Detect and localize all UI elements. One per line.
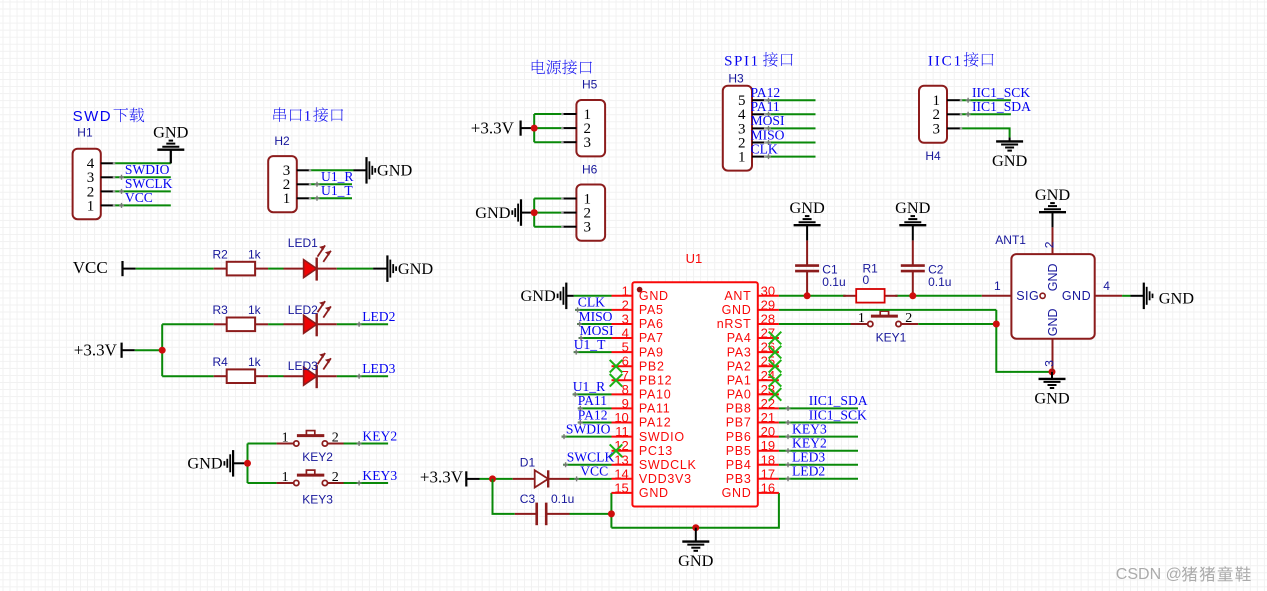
wire VCC to R2	[136, 268, 214, 270]
svg-text:0: 0	[863, 273, 870, 287]
no-connect marks right	[769, 332, 782, 401]
ground GND at keys	[187, 450, 247, 477]
wire PA12 at H3	[765, 99, 815, 101]
svg-text:11: 11	[615, 424, 629, 439]
net label VCC at U1	[574, 464, 608, 482]
ground GND at LED1	[373, 255, 433, 282]
KEY1 pin 2	[905, 311, 912, 326]
net label IIC1_SCK at U1	[786, 407, 868, 425]
svg-text:GND: GND	[1046, 263, 1060, 291]
svg-text:25: 25	[761, 354, 775, 369]
net label IIC1_SCK at H4	[966, 85, 1031, 103]
IC U1	[612, 282, 779, 506]
svg-text:19: 19	[761, 438, 775, 453]
net label LED2 at U1	[786, 464, 826, 482]
svg-text:1k: 1k	[248, 355, 262, 369]
title IIC1 port	[928, 52, 994, 69]
svg-text:nRST: nRST	[717, 317, 752, 331]
svg-text:20: 20	[761, 424, 775, 439]
net label MOSI at H3	[751, 113, 785, 131]
wire key branch	[248, 444, 277, 484]
svg-text:SWCLK: SWCLK	[125, 176, 173, 191]
LED LED3	[284, 353, 337, 388]
svg-text:SWDIO: SWDIO	[125, 162, 170, 177]
wire LED1 to GND	[337, 268, 373, 270]
wire to R3	[162, 323, 214, 325]
ANT1 pin 3 number	[1043, 360, 1057, 367]
title UART1 port	[273, 107, 343, 124]
svg-text:R4: R4	[213, 355, 229, 369]
wire PA12 at U1	[578, 422, 612, 424]
ground GND right of ANT1	[1131, 283, 1195, 310]
ANT1 pin GND bottom name	[1046, 308, 1060, 336]
svg-text:4: 4	[622, 326, 629, 341]
wire H2 pin3 to GND	[310, 169, 354, 171]
wire U1_R	[310, 183, 352, 185]
svg-text:14: 14	[614, 466, 628, 481]
label R4 value 1k	[248, 355, 262, 369]
net label U1_T	[315, 183, 354, 201]
wire SWCLK at U1	[563, 464, 611, 466]
ground GND at H2	[354, 157, 413, 184]
svg-text:KEY1: KEY1	[876, 331, 907, 345]
svg-text:GND: GND	[153, 123, 189, 142]
net label LED3	[357, 361, 396, 379]
svg-text:IIC1_SCK: IIC1_SCK	[972, 85, 1030, 100]
svg-text:0.1u: 0.1u	[822, 275, 845, 289]
svg-text:GND: GND	[475, 203, 511, 222]
power port +3.3V at H5	[471, 118, 534, 137]
svg-text:GND: GND	[639, 486, 669, 500]
svg-text:PB3: PB3	[726, 472, 752, 486]
svg-text:U1: U1	[686, 251, 703, 266]
pin end markers	[113, 99, 963, 228]
svg-text:MOSI: MOSI	[751, 113, 785, 128]
KEY1 pin 1	[858, 311, 865, 326]
wire KEY3 at U1	[779, 436, 858, 438]
svg-text:1: 1	[87, 198, 95, 214]
label R1	[863, 262, 879, 276]
svg-text:KEY2: KEY2	[792, 436, 827, 451]
svg-text:KEY3: KEY3	[302, 492, 333, 506]
antenna ANT1	[982, 227, 1122, 372]
svg-text:9: 9	[622, 396, 629, 411]
label C2	[928, 263, 944, 277]
label R3 value 1k	[248, 303, 262, 317]
wire CLK at U1	[575, 309, 611, 311]
label KEY1	[876, 331, 907, 345]
wire VCC at H1	[114, 204, 171, 206]
ANT1 pin 4 number	[1103, 279, 1110, 293]
svg-text:D1: D1	[520, 456, 536, 470]
KEY3 pin 1	[282, 470, 289, 485]
wire MISO at H3	[765, 142, 815, 144]
connector H5 designator	[582, 78, 598, 92]
wire D1 to U1 pin14	[570, 478, 612, 480]
connector H2 designator	[274, 134, 290, 148]
svg-text:PA11: PA11	[639, 402, 671, 416]
LED LED2	[284, 301, 337, 336]
svg-text:7: 7	[622, 368, 629, 383]
capacitor C3	[515, 503, 570, 526]
svg-text:PB8: PB8	[726, 402, 752, 416]
svg-text:KEY2: KEY2	[302, 450, 333, 464]
ANT1 pin GND right name	[1062, 289, 1091, 303]
svg-text:GND: GND	[789, 198, 825, 217]
svg-text:H2: H2	[274, 134, 290, 148]
svg-text:17: 17	[761, 466, 775, 481]
wire R4 to LED3	[268, 375, 283, 377]
svg-text:PB2: PB2	[639, 359, 665, 373]
svg-text:H1: H1	[77, 126, 93, 140]
wire MOSI at H3	[765, 127, 815, 129]
ground GND at bottom	[678, 528, 714, 570]
net label VCC at H1	[119, 190, 153, 208]
svg-text:SWDIO: SWDIO	[566, 421, 611, 436]
ANT1 pin 1 number	[994, 279, 1001, 293]
title SWD download	[73, 108, 145, 125]
wire ANT	[779, 295, 982, 297]
svg-text:1k: 1k	[248, 303, 262, 317]
wire bottom rail	[611, 493, 779, 528]
push button KEY3	[277, 470, 345, 486]
svg-text:3: 3	[584, 135, 592, 151]
wire KEY2 at U1	[779, 450, 858, 452]
KEY2 pin 2	[332, 431, 339, 446]
wire PA11 at U1	[578, 407, 612, 409]
connector H1	[73, 149, 114, 220]
svg-text:26: 26	[761, 340, 775, 355]
svg-text:LED1: LED1	[288, 236, 318, 250]
svg-text:H6: H6	[582, 163, 598, 177]
svg-text:10: 10	[614, 410, 628, 425]
svg-text:PA9: PA9	[639, 345, 664, 359]
wire LED2 at U1	[779, 478, 858, 480]
svg-text:PA5: PA5	[639, 303, 664, 317]
svg-text:IIC1_SDA: IIC1_SDA	[809, 393, 868, 408]
svg-text:PB6: PB6	[726, 430, 752, 444]
push button KEY2	[277, 431, 345, 447]
wire KEY2 stub	[344, 443, 389, 445]
svg-text:GND: GND	[521, 286, 557, 305]
net label PA12 at U1	[578, 407, 608, 425]
svg-text:+3.3V: +3.3V	[420, 468, 464, 487]
svg-text:GND: GND	[1034, 388, 1070, 407]
svg-text:R3: R3	[213, 303, 229, 317]
svg-text:R2: R2	[213, 247, 229, 261]
svg-text:LED2: LED2	[362, 309, 395, 324]
net label CLK at H3	[751, 141, 778, 159]
ground GND at C2	[895, 198, 931, 240]
ANT1 pin 2 number	[1043, 241, 1057, 248]
push button KEY1	[851, 311, 919, 327]
svg-text:GND: GND	[1046, 308, 1060, 336]
svg-text:PA2: PA2	[727, 359, 752, 373]
svg-text:1: 1	[304, 109, 312, 125]
svg-text:KEY3: KEY3	[792, 421, 827, 436]
svg-text:GND: GND	[722, 486, 752, 500]
svg-text:VCC: VCC	[580, 464, 608, 479]
junction at C2	[909, 292, 916, 299]
svg-text:3: 3	[622, 312, 629, 327]
svg-text:SWDCLK: SWDCLK	[639, 458, 697, 472]
svg-text:SWCLK: SWCLK	[567, 450, 615, 465]
junction at D1	[489, 475, 496, 482]
connector H6	[562, 185, 605, 241]
wire SWCLK	[114, 190, 171, 192]
svg-text:MISO: MISO	[579, 309, 613, 324]
svg-text:1: 1	[622, 283, 629, 298]
junction at keys	[244, 460, 251, 467]
power port +3.3V at LED rows	[74, 340, 135, 359]
wire MISO at U1	[577, 323, 611, 325]
net label SWDIO	[119, 162, 170, 180]
svg-text:U1_R: U1_R	[573, 379, 606, 394]
wire PA11 at H3	[765, 113, 815, 115]
svg-text:GND: GND	[1062, 289, 1091, 303]
svg-text:3: 3	[584, 220, 592, 236]
svg-text:3: 3	[1043, 360, 1057, 367]
junction at H6	[531, 209, 538, 216]
svg-text:28: 28	[761, 312, 775, 327]
svg-text:C3: C3	[520, 492, 536, 506]
svg-text:PA1: PA1	[727, 374, 752, 388]
net label SWCLK	[119, 176, 173, 194]
svg-text:PB12: PB12	[639, 374, 672, 388]
resistor R2	[214, 262, 268, 276]
label C3	[520, 492, 536, 506]
wire IIC1_SDA at H4	[961, 113, 1011, 115]
svg-text:KEY2: KEY2	[362, 428, 397, 443]
junction at C1	[804, 292, 811, 299]
net label KEY2 at U1	[786, 436, 827, 454]
label R4	[213, 355, 229, 369]
wire CLK at H3	[765, 156, 815, 158]
wire KEY1 to GND net	[918, 323, 996, 325]
svg-text:PA6: PA6	[639, 317, 664, 331]
svg-text:4: 4	[1103, 279, 1110, 293]
net label SWDIO at U1	[562, 421, 611, 439]
svg-text:23: 23	[761, 382, 775, 397]
label R1 value 0	[863, 273, 870, 287]
net label PA11 at H3	[751, 99, 780, 117]
svg-text:VCC: VCC	[73, 258, 108, 277]
net label MOSI at U1	[579, 323, 614, 341]
net label IIC1_SDA at H4	[966, 99, 1031, 117]
net label PA12 at H3	[751, 85, 781, 103]
svg-text:VDD3V3: VDD3V3	[639, 472, 692, 486]
label R2	[213, 247, 229, 261]
wire U1 pin1 GND	[574, 295, 612, 297]
svg-text:U1_T: U1_T	[321, 183, 353, 198]
svg-text:30: 30	[761, 283, 775, 298]
svg-text:GND: GND	[895, 198, 931, 217]
svg-text:6: 6	[622, 354, 629, 369]
svg-text:U1_T: U1_T	[574, 337, 606, 352]
wire LED2 stub	[337, 323, 388, 325]
svg-text:1: 1	[738, 150, 746, 166]
capacitor C1	[795, 240, 819, 295]
net label MISO at H3	[751, 127, 785, 145]
svg-text:SIG: SIG	[1016, 289, 1039, 303]
title SPI1 port	[724, 52, 793, 69]
svg-text:8: 8	[622, 382, 629, 397]
svg-text:CLK: CLK	[751, 141, 778, 156]
net label PA11 at U1	[578, 393, 607, 411]
junction at C3	[608, 510, 615, 517]
svg-text:GND: GND	[639, 289, 669, 303]
svg-text:GND: GND	[678, 551, 714, 570]
svg-text:GND: GND	[1035, 185, 1071, 204]
svg-text:2: 2	[1043, 241, 1057, 248]
connector H5	[562, 100, 605, 156]
wire +3.3V to D1	[480, 478, 513, 480]
net label MISO at U1	[577, 309, 613, 327]
wire IIC1_SDA at U1	[779, 407, 858, 409]
connector H4	[919, 86, 961, 143]
svg-text:PA12: PA12	[751, 85, 781, 100]
IC U1 designator	[686, 251, 703, 266]
label KEY2	[302, 450, 333, 464]
label R3	[213, 303, 229, 317]
svg-text:LED3: LED3	[362, 361, 395, 376]
wire U1 pin29 GND	[779, 310, 1052, 372]
ANT1 pin SIG name	[1016, 289, 1039, 303]
wire GND to H6	[534, 199, 562, 227]
ground GND at H6	[475, 199, 534, 226]
svg-text:GND: GND	[992, 151, 1028, 170]
junction at +3.3V	[159, 347, 166, 354]
svg-text:GND: GND	[722, 303, 752, 317]
wire nRST to KEY1	[779, 323, 856, 325]
net label KEY2	[357, 428, 398, 446]
net label IIC1_SDA at U1	[786, 393, 868, 411]
junction at H5	[531, 125, 538, 132]
title power port	[532, 60, 592, 75]
svg-text:3: 3	[933, 121, 941, 137]
svg-text:SWD: SWD	[73, 108, 113, 125]
svg-text:16: 16	[761, 480, 775, 495]
net label U1_R	[315, 169, 355, 187]
power port +3.3V at D1	[420, 468, 480, 487]
svg-text:13: 13	[614, 452, 628, 467]
svg-text:2: 2	[332, 470, 339, 485]
svg-text:PA12: PA12	[578, 407, 608, 422]
svg-text:+3.3V: +3.3V	[471, 118, 515, 137]
svg-text:1: 1	[282, 470, 289, 485]
svg-text:GND: GND	[398, 259, 434, 278]
svg-text:PC13: PC13	[639, 444, 673, 458]
connector H6 designator	[582, 163, 598, 177]
svg-text:LED3: LED3	[288, 359, 318, 373]
resistor R1	[843, 289, 897, 303]
wire U1_T	[310, 197, 352, 199]
svg-text:GND: GND	[1159, 289, 1195, 308]
wire R2 to LED1	[268, 268, 283, 270]
svg-text:PA0: PA0	[727, 388, 752, 402]
label C1	[822, 263, 838, 277]
svg-text:21: 21	[761, 410, 775, 425]
no-connect marks left	[610, 360, 623, 457]
label KEY3	[302, 492, 333, 506]
ground GND at U1 pin1	[521, 283, 574, 310]
svg-text:SPI1: SPI1	[724, 53, 760, 69]
ANT1 pin GND top name	[1046, 263, 1060, 291]
wire R3 to LED2	[268, 323, 283, 325]
svg-text:29: 29	[761, 297, 775, 312]
label D1	[520, 456, 536, 470]
svg-text:LED2: LED2	[288, 303, 318, 317]
label R2 value 1k	[248, 247, 262, 261]
svg-text:H5: H5	[582, 78, 598, 92]
svg-text:IIC1_SCK: IIC1_SCK	[809, 407, 867, 422]
wire MOSI at U1	[579, 337, 612, 339]
svg-text:GND: GND	[377, 161, 413, 180]
net label SWCLK at U1	[563, 450, 614, 468]
svg-text:KEY3: KEY3	[362, 468, 397, 483]
wire down from +3.3V	[493, 479, 515, 514]
svg-text:GND: GND	[187, 454, 223, 473]
net label KEY3 at U1	[786, 421, 827, 439]
net label KEY3	[357, 468, 398, 486]
svg-text:LED3: LED3	[792, 450, 825, 465]
net label U1_R at U1	[573, 379, 606, 397]
wire LED3 at U1	[779, 464, 858, 466]
label C3 value 0.1u	[551, 492, 574, 506]
svg-text:1: 1	[282, 431, 289, 446]
wire to R4	[162, 375, 214, 377]
svg-text:1: 1	[858, 311, 865, 326]
KEY3 pin 2	[332, 470, 339, 485]
svg-text:PA10: PA10	[639, 388, 671, 402]
svg-text:MISO: MISO	[751, 127, 785, 142]
svg-text:IIC1: IIC1	[928, 53, 963, 69]
wire KEY3 stub	[344, 482, 389, 484]
svg-text:MOSI: MOSI	[580, 323, 614, 338]
connector H3 designator	[728, 71, 744, 85]
capacitor C2	[901, 240, 925, 295]
svg-text:PB4: PB4	[726, 458, 752, 472]
svg-text:15: 15	[614, 480, 628, 495]
wire ANT pin4 to GND	[1122, 295, 1130, 297]
connector H3	[723, 86, 765, 171]
svg-text:ANT1: ANT1	[995, 233, 1026, 247]
power port VCC	[73, 258, 136, 277]
label C2 value 0.1u	[928, 275, 951, 289]
svg-text:H3: H3	[728, 71, 744, 85]
svg-text:2: 2	[905, 311, 912, 326]
LED LED1	[284, 245, 337, 280]
svg-text:0.1u: 0.1u	[928, 275, 951, 289]
svg-text:0.1u: 0.1u	[551, 492, 574, 506]
svg-text:27: 27	[761, 326, 775, 341]
svg-text:1k: 1k	[248, 247, 262, 261]
wire U1_T at U1	[574, 351, 612, 353]
wire +3.3V branch	[135, 324, 162, 376]
svg-text:24: 24	[761, 368, 775, 383]
label LED1	[288, 236, 318, 250]
connector H2	[268, 156, 310, 212]
wire SWDIO at U1	[562, 436, 612, 438]
svg-text:PB5: PB5	[726, 444, 752, 458]
wire U1_R at U1	[573, 393, 612, 395]
wire H1 pin4 to GND	[114, 150, 171, 164]
svg-text:PB7: PB7	[726, 416, 752, 430]
connector H4 designator	[925, 149, 941, 163]
svg-text:ANT: ANT	[724, 289, 751, 303]
svg-text:U1_R: U1_R	[321, 169, 354, 184]
resistor R3	[214, 318, 268, 332]
